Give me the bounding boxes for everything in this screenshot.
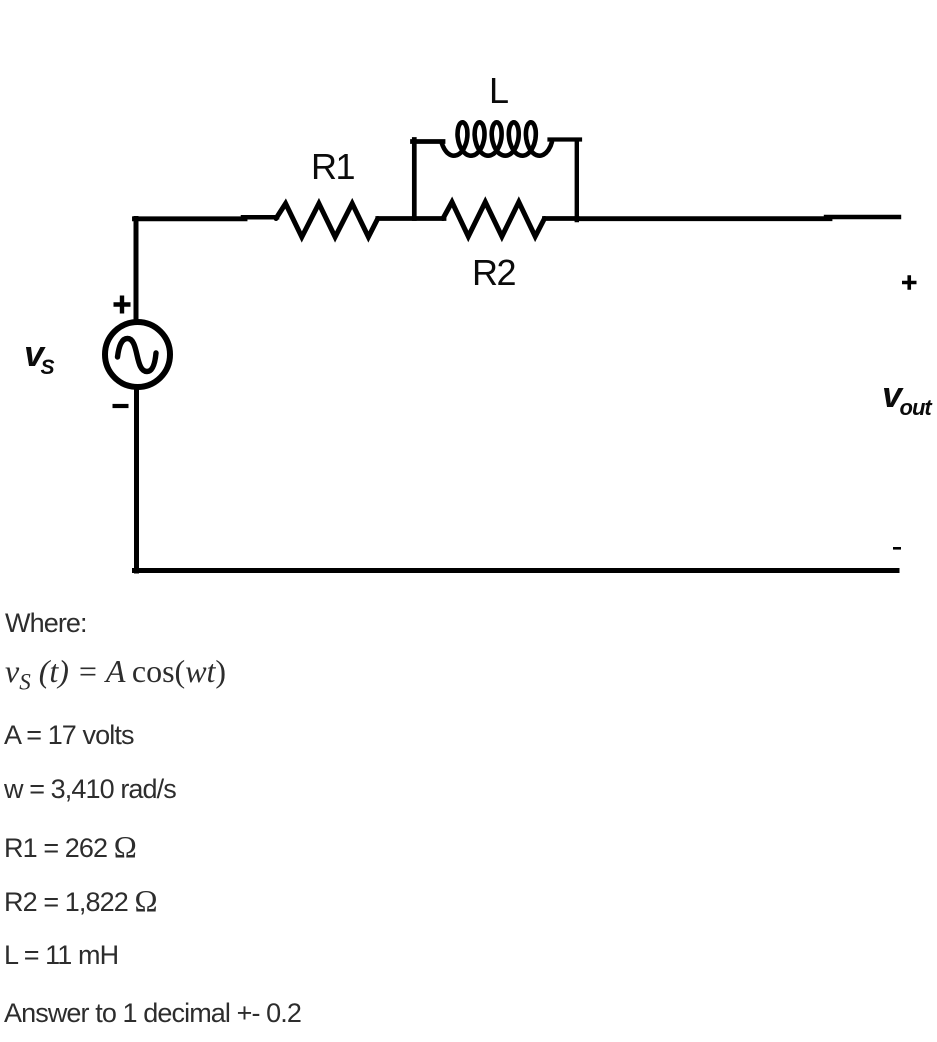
label R1 xyxy=(311,146,354,188)
inductor L xyxy=(442,122,552,155)
label L xyxy=(489,70,508,112)
resistor R2 xyxy=(443,202,545,237)
text A xyxy=(4,720,134,751)
voltage source VS circle xyxy=(105,322,170,387)
text Answer xyxy=(4,998,301,1029)
node B right branch vertical xyxy=(575,142,579,221)
wire box top-left xyxy=(413,139,444,144)
wire top-left horizontal xyxy=(135,216,246,221)
text Where xyxy=(5,608,87,639)
wire left vertical lower xyxy=(134,389,139,571)
wire left vertical upper xyxy=(134,219,139,322)
wire R2 to node B xyxy=(545,216,578,221)
label vS xyxy=(24,333,53,380)
minus sign at source xyxy=(113,404,129,408)
plus sign at output xyxy=(902,275,917,290)
voltage source sine symbol xyxy=(118,339,157,372)
plus sign at source xyxy=(114,296,131,314)
wire box top-right xyxy=(550,137,581,141)
node A left branch vertical xyxy=(412,140,417,219)
text L xyxy=(4,940,118,971)
wire top-right horizontal far segment xyxy=(826,215,899,219)
label vout xyxy=(882,374,931,421)
text w xyxy=(4,774,176,805)
resistor R1 xyxy=(276,204,378,238)
wire bottom horizontal xyxy=(135,568,898,573)
wire R1 to node A xyxy=(378,216,444,221)
text R2 xyxy=(4,883,158,919)
minus sign at output xyxy=(893,547,901,550)
text R1 xyxy=(4,829,137,865)
label R2 xyxy=(472,252,515,294)
wire top-left horizontal second segment xyxy=(243,215,277,220)
wire top-right horizontal xyxy=(577,216,830,221)
formula vS(t)=Acos(wt) xyxy=(5,653,226,695)
